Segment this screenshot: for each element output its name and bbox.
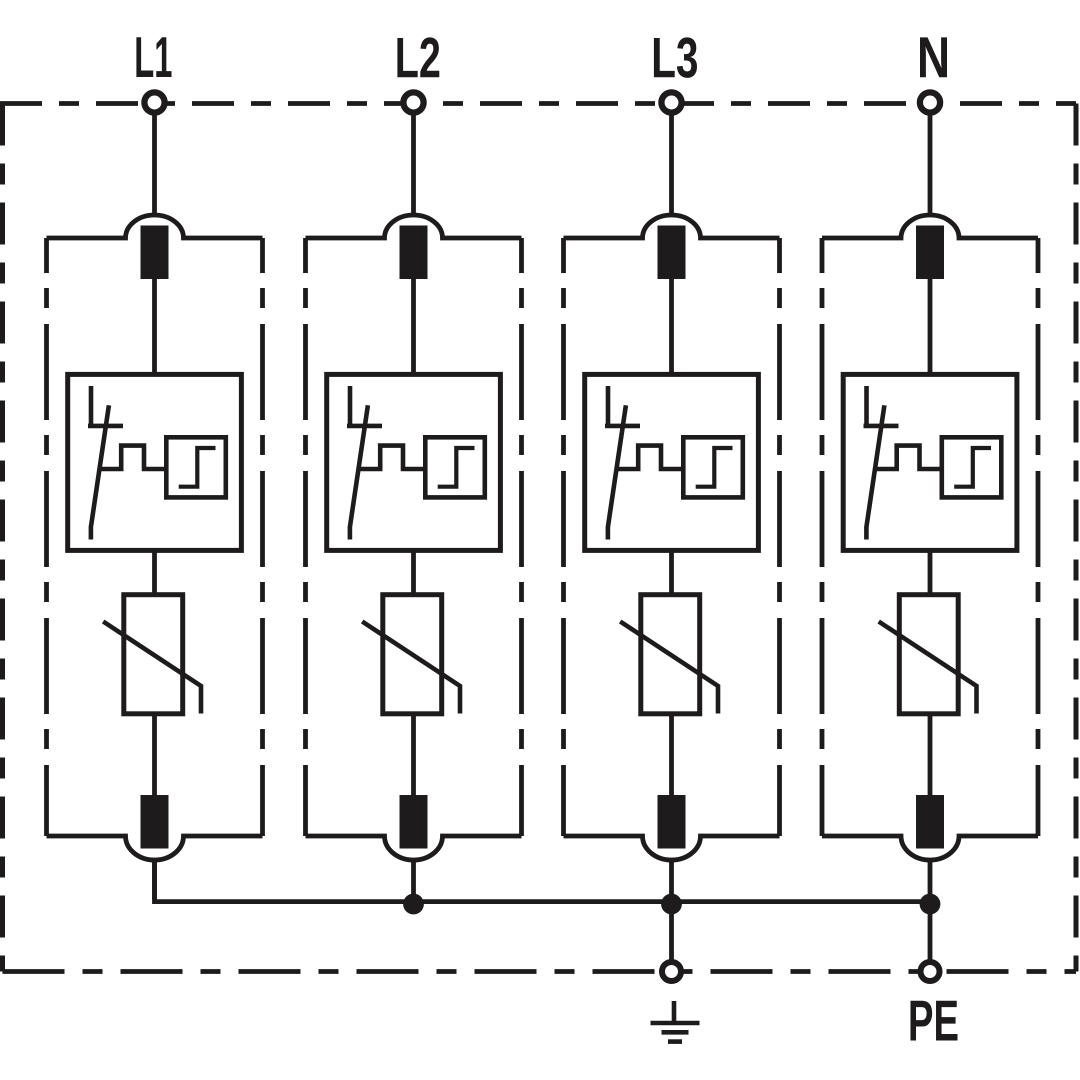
wire U3 to varistor RV3 [669, 550, 674, 596]
ground symbol bar 3 [668, 1039, 682, 1044]
wire N terminal to disconnect fuse F4a [928, 103, 933, 217]
wire U4 to varistor RV4 [928, 550, 933, 596]
label PE [911, 1001, 958, 1041]
earth terminal (open circle on border) [662, 962, 681, 981]
varistor RV1 diagonal stroke [103, 622, 201, 714]
status signalling box U1 [166, 437, 226, 497]
varistor RV4 diagonal stroke [879, 622, 977, 714]
step-function symbol inside signalling box U3 [696, 448, 733, 487]
protection module boundary (dashed box) channel L3 [564, 215, 780, 860]
ground symbol stem [672, 1001, 677, 1023]
label N [920, 37, 947, 77]
wire F4a to disconnector U4 [928, 279, 933, 376]
wire F1a to disconnector U1 [152, 279, 157, 376]
status signalling box U3 [683, 437, 743, 497]
wire bus to earth terminal [669, 904, 674, 968]
wire F3b to PE bus [669, 859, 674, 901]
thermal disconnector with monitoring U2 (outer box) [327, 374, 501, 550]
varistor RV4 body [899, 595, 958, 714]
equipment enclosure border, right side [1074, 104, 1079, 972]
junction node N/bus [920, 894, 941, 915]
label L1 [136, 37, 171, 77]
wire RV2 to disconnect fuse F2b [411, 714, 416, 800]
junction node L2/bus [403, 894, 424, 915]
terminal PE (open circle on border) [921, 962, 940, 981]
step-function symbol inside signalling box U2 [438, 448, 475, 487]
trip linkage (step line) U3 [617, 446, 684, 469]
trip linkage (step line) U2 [359, 446, 426, 469]
step-function symbol inside signalling box U1 [179, 448, 216, 487]
step-function symbol inside signalling box U4 [954, 448, 991, 487]
thermal disconnect fuse F4b (bottom black body) [916, 795, 944, 849]
disconnector switch blade U1 [91, 405, 109, 539]
ground symbol bar 2 [662, 1030, 689, 1035]
label L3 [654, 37, 697, 77]
varistor RV1 body [124, 595, 183, 714]
wire U2 to varistor RV2 [411, 550, 416, 596]
wire F1b to PE bus [152, 859, 157, 901]
ground symbol bar 1 [651, 1021, 700, 1026]
terminal L1 (open circle) [144, 92, 164, 112]
disconnector switch contact (lead and seat) U3 [605, 386, 640, 426]
terminal N (open circle) [920, 92, 940, 112]
terminal L2 (open circle) [403, 92, 423, 112]
thermal disconnector with monitoring U4 (outer box) [843, 374, 1017, 550]
thermal disconnector with monitoring U3 (outer box) [585, 374, 759, 550]
wire L3 terminal to disconnect fuse F3a [669, 103, 674, 217]
trip linkage (step line) U1 [100, 446, 167, 469]
equipment enclosure border (dash-dot), top side [0, 101, 1076, 106]
terminal L3 (open circle) [661, 92, 681, 112]
thermal disconnect fuse F4a (top black body) [916, 226, 944, 280]
wire F4b to PE bus [928, 859, 933, 901]
protection module boundary (dashed box) channel L1 [47, 215, 263, 860]
thermal disconnect fuse F3b (bottom black body) [658, 795, 686, 849]
disconnector switch contact (lead and seat) U2 [347, 386, 382, 426]
wire F2a to disconnector U2 [411, 279, 416, 376]
thermal disconnect fuse F1a (top black body) [141, 226, 169, 280]
wire U1 to varistor RV1 [152, 550, 157, 596]
label L2 [397, 37, 439, 77]
disconnector switch contact (lead and seat) U4 [864, 386, 899, 426]
PE bus wire (common collector rail) [155, 859, 931, 902]
status signalling box U4 [942, 437, 1002, 497]
wire RV1 to disconnect fuse F1b [152, 714, 157, 800]
disconnector switch blade U3 [608, 405, 626, 539]
wire F2b to PE bus [411, 859, 416, 901]
protection module boundary (dashed box) channel L2 [306, 215, 522, 860]
equipment enclosure border, left side [0, 104, 5, 972]
wire L2 terminal to disconnect fuse F2a [411, 103, 416, 217]
disconnector switch contact (lead and seat) U1 [88, 386, 123, 426]
disconnector switch blade U2 [350, 405, 368, 539]
thermal disconnect fuse F3a (top black body) [658, 226, 686, 280]
wire L1 terminal to disconnect fuse F1a [152, 103, 157, 217]
thermal disconnector with monitoring U1 (outer box) [68, 374, 242, 550]
thermal disconnect fuse F2a (top black body) [400, 226, 428, 280]
varistor RV2 body [383, 595, 442, 714]
thermal disconnect fuse F2b (bottom black body) [400, 795, 428, 849]
equipment enclosure border, bottom side [3, 969, 1077, 974]
wire RV3 to disconnect fuse F3b [669, 714, 674, 800]
wire bus to PE terminal [928, 904, 933, 968]
protection module boundary (dashed box) channel N [822, 215, 1038, 860]
varistor RV3 diagonal stroke [620, 622, 718, 714]
wire F3a to disconnector U3 [669, 279, 674, 376]
varistor RV3 body [641, 595, 700, 714]
disconnector switch blade U4 [866, 405, 884, 539]
varistor RV2 diagonal stroke [362, 622, 460, 714]
status signalling box U2 [425, 437, 485, 497]
wire RV4 to disconnect fuse F4b [928, 714, 933, 800]
thermal disconnect fuse F1b (bottom black body) [141, 795, 169, 849]
junction node L3/bus [661, 894, 682, 915]
trip linkage (step line) U4 [875, 446, 942, 469]
